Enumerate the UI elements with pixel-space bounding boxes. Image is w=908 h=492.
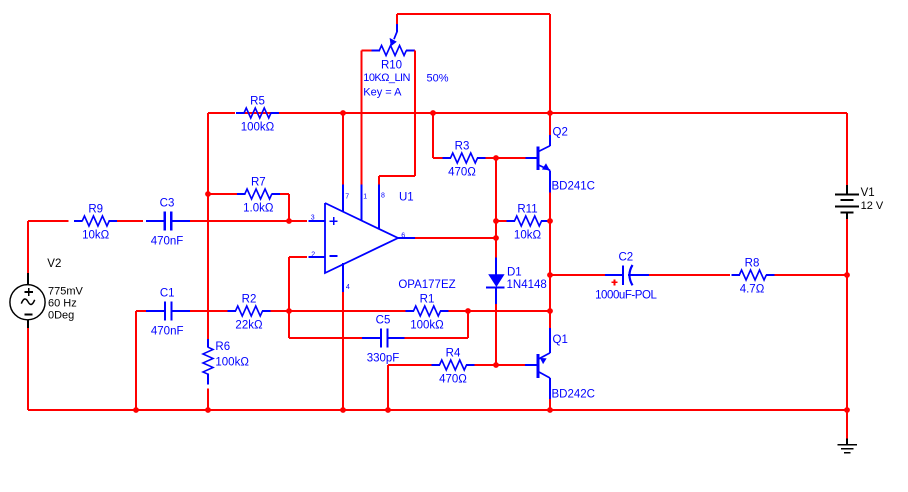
svg-text:BD242C: BD242C [552, 389, 595, 401]
svg-text:BD241C: BD241C [552, 180, 595, 192]
svg-text:470Ω: 470Ω [448, 167, 476, 179]
svg-text:Key = A: Key = A [363, 86, 402, 98]
svg-text:R10: R10 [381, 60, 402, 72]
svg-text:3: 3 [311, 214, 315, 221]
svg-text:1000uF-POL: 1000uF-POL [595, 290, 657, 302]
svg-text:4: 4 [346, 284, 350, 291]
svg-text:U1: U1 [399, 192, 414, 204]
svg-text:0Deg: 0Deg [48, 310, 74, 322]
svg-text:1: 1 [363, 194, 367, 201]
svg-text:775mV: 775mV [48, 286, 84, 298]
svg-text:22kΩ: 22kΩ [235, 320, 263, 332]
svg-text:10kΩ: 10kΩ [82, 230, 110, 242]
svg-text:12 V: 12 V [861, 200, 884, 212]
svg-text:470Ω: 470Ω [439, 374, 467, 386]
svg-text:R3: R3 [455, 141, 470, 153]
svg-text:100kΩ: 100kΩ [410, 320, 444, 332]
svg-text:C1: C1 [160, 288, 175, 300]
svg-text:7: 7 [345, 194, 349, 201]
svg-text:R9: R9 [88, 204, 103, 216]
svg-text:470nF: 470nF [151, 326, 184, 338]
svg-text:V1: V1 [861, 187, 875, 199]
svg-text:C2: C2 [618, 252, 633, 264]
svg-text:10kΩ: 10kΩ [514, 230, 542, 242]
svg-text:C3: C3 [160, 198, 175, 210]
svg-text:2: 2 [311, 251, 315, 258]
svg-text:330pF: 330pF [367, 353, 400, 365]
svg-text:4.7Ω: 4.7Ω [740, 284, 765, 296]
svg-text:R2: R2 [242, 294, 257, 306]
svg-text:100kΩ: 100kΩ [215, 356, 249, 368]
svg-text:6: 6 [401, 232, 405, 239]
svg-text:C5: C5 [376, 315, 391, 327]
svg-text:Q1: Q1 [553, 334, 568, 346]
svg-text:D1: D1 [507, 267, 522, 279]
svg-text:R4: R4 [446, 348, 461, 360]
svg-text:V2: V2 [47, 258, 61, 270]
svg-text:50%: 50% [427, 72, 449, 84]
svg-text:OPA177EZ: OPA177EZ [398, 279, 455, 291]
svg-text:1.0kΩ: 1.0kΩ [243, 203, 274, 215]
svg-text:60 Hz: 60 Hz [48, 298, 77, 310]
svg-text:10KΩ_LIN: 10KΩ_LIN [363, 72, 410, 84]
svg-text:R8: R8 [745, 258, 760, 270]
svg-text:R11: R11 [517, 204, 537, 216]
svg-text:100kΩ: 100kΩ [241, 122, 275, 134]
svg-text:470nF: 470nF [151, 236, 184, 248]
svg-text:1N4148: 1N4148 [507, 279, 547, 291]
svg-text:R7: R7 [251, 177, 266, 189]
svg-text:R5: R5 [250, 96, 265, 108]
svg-text:R6: R6 [215, 341, 230, 353]
svg-text:Q2: Q2 [553, 127, 568, 139]
svg-text:R1: R1 [420, 294, 435, 306]
svg-text:8: 8 [381, 193, 385, 200]
